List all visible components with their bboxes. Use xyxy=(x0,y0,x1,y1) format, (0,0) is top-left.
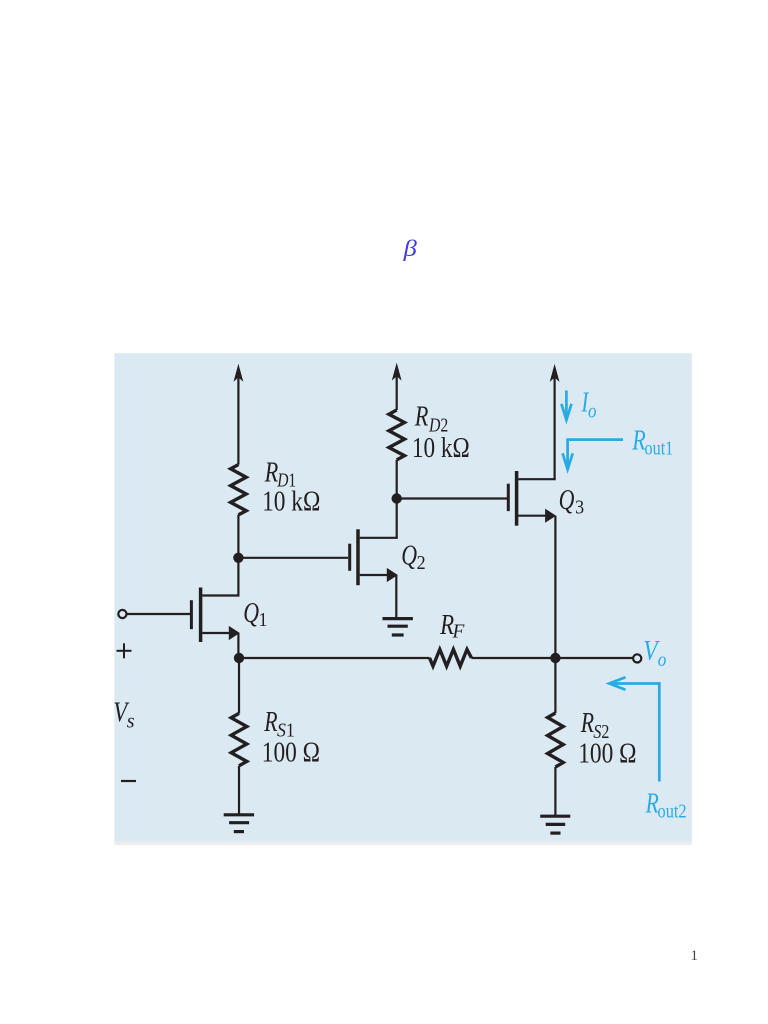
svg-text:R: R xyxy=(414,401,429,432)
svg-text:R: R xyxy=(580,709,594,739)
svg-text:100 Ω: 100 Ω xyxy=(578,738,636,769)
svg-text:o: o xyxy=(658,649,667,672)
svg-text:10 kΩ: 10 kΩ xyxy=(412,432,470,464)
svg-text:100 Ω: 100 Ω xyxy=(262,736,320,767)
svg-text:2: 2 xyxy=(417,552,426,574)
svg-text:R: R xyxy=(263,708,277,738)
svg-text:1: 1 xyxy=(259,609,268,631)
svg-text:out2: out2 xyxy=(658,800,687,822)
svg-text:Q: Q xyxy=(559,485,575,515)
svg-text:β: β xyxy=(403,237,418,262)
svg-text:R: R xyxy=(631,426,645,456)
svg-text:10 kΩ: 10 kΩ xyxy=(262,486,320,517)
svg-text:3: 3 xyxy=(575,496,584,518)
svg-text:R: R xyxy=(645,789,659,819)
svg-text:F: F xyxy=(452,620,466,642)
svg-text:Q: Q xyxy=(243,599,259,629)
svg-text:1: 1 xyxy=(691,948,698,964)
svg-text:out1: out1 xyxy=(645,437,674,459)
svg-text:Q: Q xyxy=(401,541,417,571)
svg-text:s: s xyxy=(127,711,135,733)
svg-text:o: o xyxy=(588,400,597,423)
